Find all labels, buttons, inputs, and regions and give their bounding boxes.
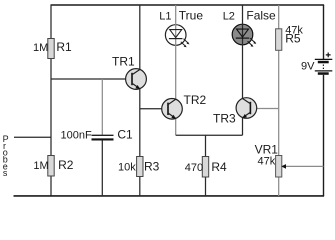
svg-text:47k: 47k [258, 155, 276, 167]
resistor R1 body [48, 39, 54, 59]
svg-text:L1: L1 [159, 11, 171, 23]
LED L2 triangle [237, 29, 249, 37]
svg-text:1M: 1M [33, 160, 48, 172]
svg-text:470: 470 [185, 162, 203, 174]
wire R4 upper [205, 135, 207, 156]
wire L2 column to TR3 collector [242, 5, 244, 99]
wire battery column top [323, 5, 325, 59]
wire TR2 emitter stub [175, 119, 177, 136]
wire TR1 emitter down to R3 [139, 89, 141, 157]
svg-text:R3: R3 [144, 160, 160, 174]
wire TR2 base [140, 108, 168, 110]
LED L1 triangle [170, 30, 182, 38]
wire TR1 collector to top rail [139, 5, 141, 70]
svg-text:R4: R4 [211, 160, 227, 174]
svg-text:TR3: TR3 [213, 111, 236, 125]
wire R5/VR1 column [278, 5, 280, 196]
svg-text:R2: R2 [58, 158, 74, 172]
svg-text:L2: L2 [223, 11, 235, 23]
LED L2 circle [232, 24, 253, 45]
wire R4 lower to ground [205, 177, 207, 197]
resistor R4 body [202, 157, 208, 178]
svg-text:TR2: TR2 [184, 93, 207, 107]
svg-text:R1: R1 [56, 40, 72, 54]
wire TR3 emitter stub [242, 118, 244, 136]
LED L1 cathode bar [169, 38, 183, 40]
potentiometer VR1 body [276, 156, 282, 178]
label Probes [3, 134, 9, 178]
LED L1 emission arrows [181, 39, 190, 48]
LED L1 circle [165, 25, 186, 46]
svg-text:True: True [179, 9, 204, 23]
svg-text:TR1: TR1 [112, 55, 135, 69]
LED L2 emission arrows [248, 38, 257, 47]
wire top supply rail [51, 4, 325, 6]
wire bottom ground rail [14, 195, 325, 197]
potentiometer VR1 wiper [281, 164, 323, 169]
resistor R2 body [48, 156, 54, 177]
battery B1 (9V) [315, 53, 333, 75]
svg-text:10k: 10k [118, 162, 136, 174]
svg-text:9V: 9V [301, 61, 315, 73]
wire TR1 base from left node [51, 78, 133, 80]
wire R3 to ground rail [139, 177, 141, 197]
resistor R3 body [137, 157, 143, 177]
wire L1 column through LED to TR2 collector [175, 5, 177, 99]
wire shared emitter rail [176, 134, 243, 136]
svg-text:R5: R5 [285, 32, 301, 46]
svg-text:False: False [246, 9, 276, 23]
transistor TR2 [162, 99, 183, 120]
wire battery column bottom [323, 75, 325, 196]
wire C1 upper branch [101, 79, 103, 135]
wire TR3 base to R5/VR1 column [250, 108, 279, 110]
capacitor C1 plates [92, 135, 114, 139]
svg-text:C1: C1 [117, 127, 133, 141]
wire C1 lower branch to ground [101, 140, 103, 196]
transistor TR3 (mirrored) [236, 98, 257, 119]
wire left column (R1/R2 branch) [50, 5, 52, 196]
svg-text:1M: 1M [33, 42, 48, 54]
resistor R5 body [276, 29, 282, 51]
LED L2 cathode bar [236, 37, 250, 39]
transistor TR1 [126, 69, 147, 90]
svg-text:s: s [3, 168, 8, 178]
wire probe input stub [14, 136, 51, 138]
svg-text:100nF: 100nF [61, 129, 92, 141]
